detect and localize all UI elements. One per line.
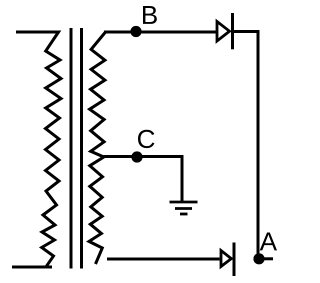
label B: [143, 6, 157, 24]
wire diode D1 to right rail and down: [234, 32, 259, 259]
label C: [138, 130, 154, 148]
wire center tap lead to ground: [104, 157, 183, 203]
wire primary bottom lead: [12, 266, 52, 269]
transformer T1 primary winding: [16, 32, 61, 267]
diode D1 cathode bar: [231, 13, 234, 49]
node A junction dot: [253, 253, 264, 264]
ground bar 1: [170, 201, 198, 204]
ground bar 3: [180, 213, 188, 216]
wire secondary bottom lead to diode: [107, 258, 220, 261]
transformer T1 core line right: [80, 28, 83, 269]
transformer T1 core line left: [70, 28, 73, 269]
diode D2 triangle: [221, 251, 231, 267]
diode D1 triangle: [217, 22, 230, 42]
node B junction dot: [130, 26, 141, 37]
transformer T1 secondary winding: [89, 32, 106, 264]
ground bar 2: [175, 207, 192, 210]
wire secondary top lead to diode: [104, 31, 216, 34]
node C junction dot: [131, 151, 142, 162]
label A: [260, 233, 277, 251]
wire node A output stub: [259, 257, 273, 260]
diode D2 cathode bar: [233, 243, 236, 277]
